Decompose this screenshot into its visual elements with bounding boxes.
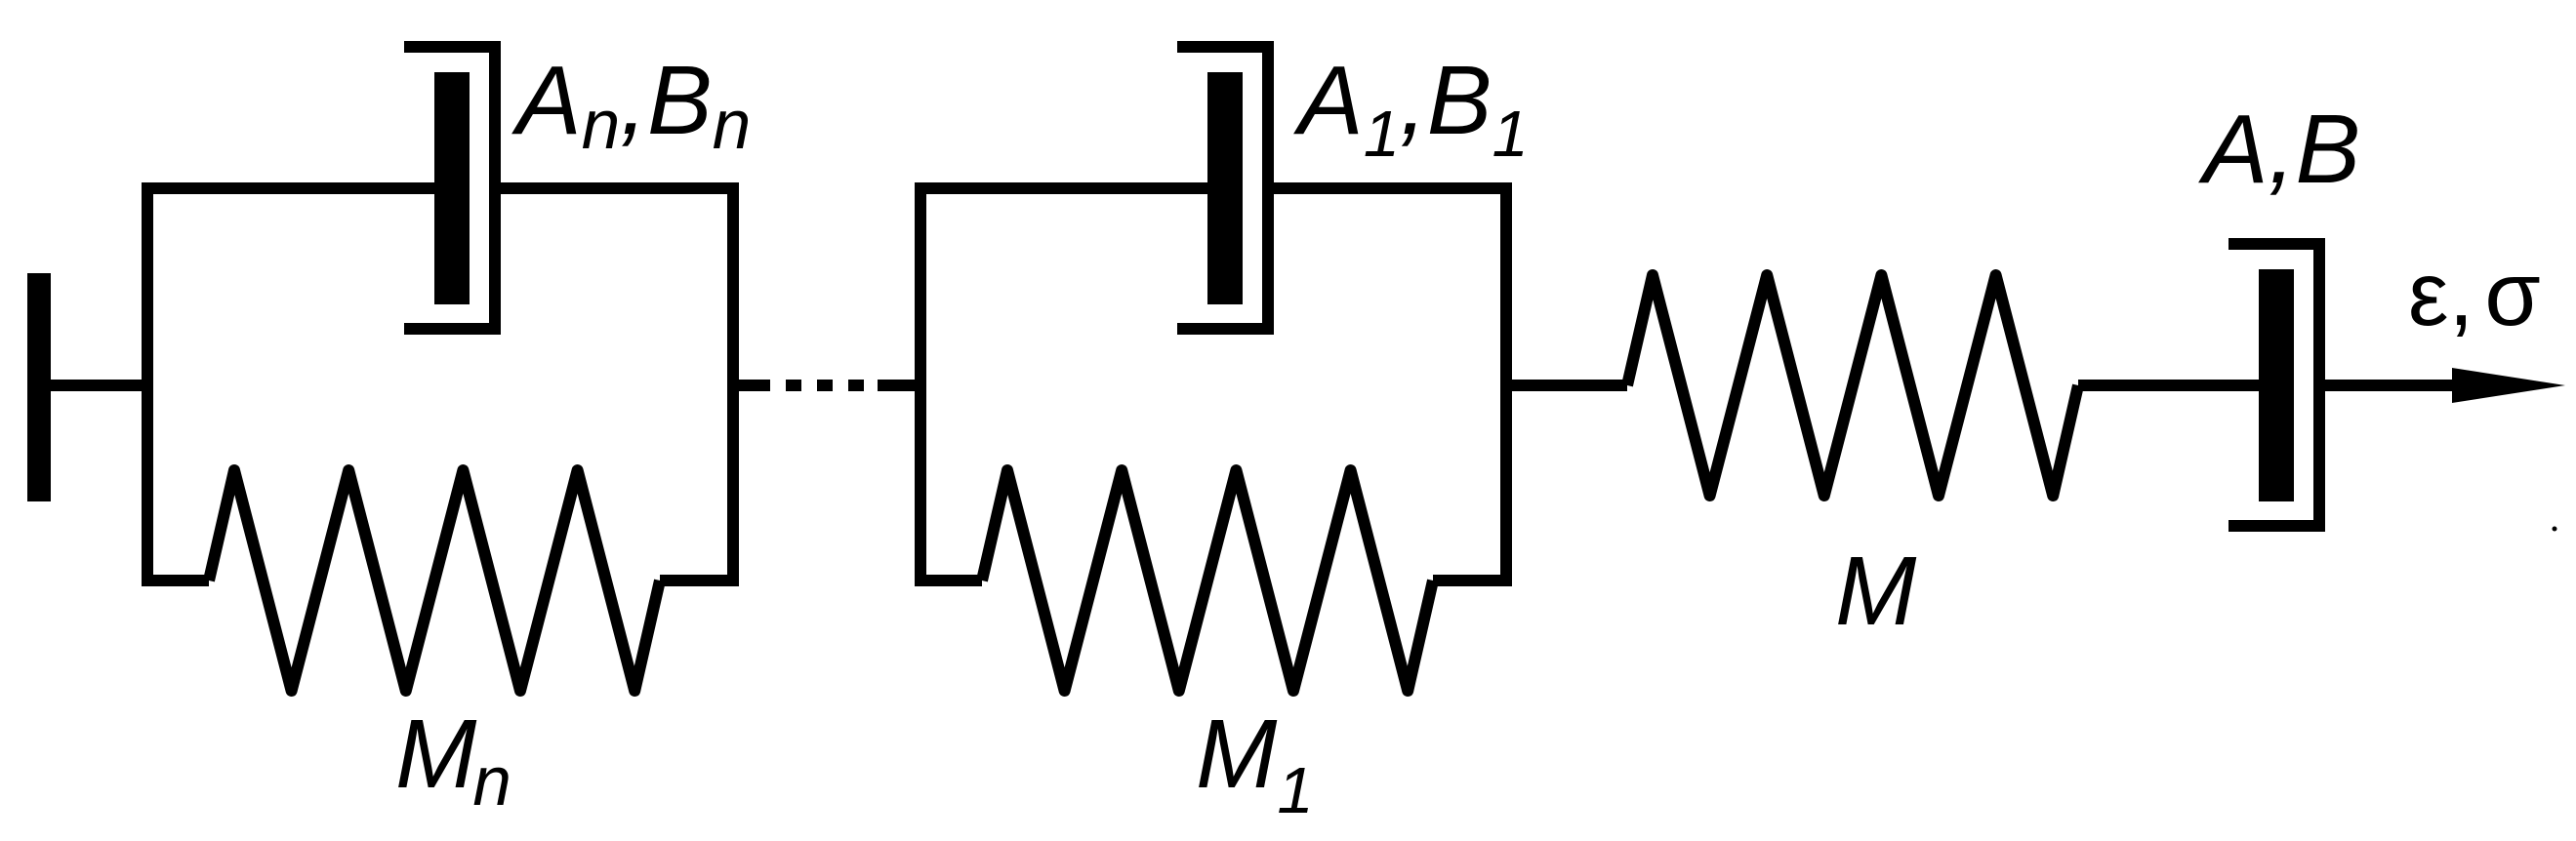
svg-text:M1: M1	[1196, 700, 1314, 827]
svg-text:An,Bn: An,Bn	[511, 46, 751, 164]
svg-text:ε,σ: ε,σ	[2408, 243, 2541, 344]
svg-text:A1,B1: A1,B1	[1293, 46, 1529, 171]
svg-text:A,B: A,B	[2198, 95, 2360, 204]
svg-text:Mn: Mn	[395, 700, 511, 821]
svg-text:M: M	[1835, 537, 1917, 646]
